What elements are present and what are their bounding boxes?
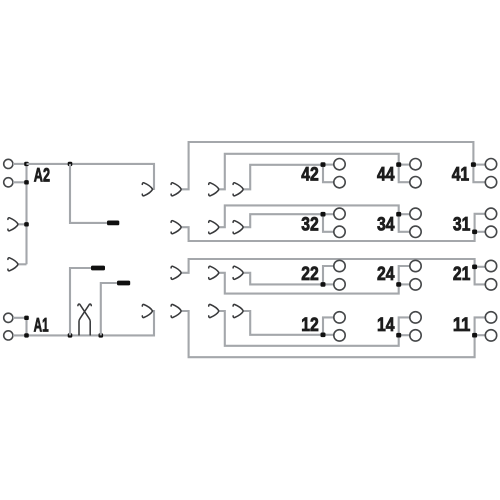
socket contact 1x NC (233, 304, 243, 317)
junction 14 (396, 333, 401, 338)
terminal 21 ring lower (485, 279, 496, 290)
wire 34 bracket (399, 214, 410, 232)
wire coil branch A (70, 268, 92, 335)
socket contact 3x NC (233, 221, 243, 234)
terminal 24 ring lower (410, 279, 421, 290)
wire 44 bracket (399, 165, 410, 183)
junction A1 lower (24, 333, 29, 337)
wire 44 stub (399, 164, 410, 166)
wire bus 21 (182, 259, 475, 273)
wire 32 stub (323, 213, 334, 215)
terminal 11 ring lower (485, 330, 496, 341)
wire bus 41 (182, 142, 474, 189)
terminal 32 ring upper (334, 208, 345, 219)
terminal 22 ring upper (334, 260, 345, 271)
wire A2 upper stub (13, 163, 27, 165)
wire 11 bracket (475, 317, 486, 335)
socket contact 3x common (171, 221, 181, 234)
wire bus 14 (219, 311, 398, 346)
svg-text:21: 21 (453, 264, 471, 285)
junction 44 (396, 162, 401, 167)
svg-text:A2: A2 (34, 166, 50, 187)
terminal A2 ring upper (4, 159, 13, 168)
junction A2 lower (24, 180, 29, 184)
wire coil branch B (101, 283, 118, 335)
svg-text:22: 22 (301, 264, 319, 285)
wire 41 stub (473, 164, 485, 166)
socket contact 3x NO (209, 221, 219, 234)
junction 21 (472, 265, 477, 270)
wire A2 feed (27, 164, 155, 189)
wire 42 bracket (323, 165, 334, 183)
junction coil branch C (68, 162, 73, 166)
terminal 24 ring upper (410, 260, 421, 271)
junction 32 (321, 212, 326, 217)
socket contact 1x NO (209, 304, 219, 317)
svg-text:42: 42 (301, 165, 319, 186)
terminal 41 ring lower (485, 177, 496, 188)
wire 22 stub (323, 283, 334, 285)
wire coil branch C (70, 164, 108, 223)
terminal A1 ring lower (4, 331, 13, 340)
wire 12 stub (323, 334, 334, 336)
svg-text:44: 44 (377, 165, 395, 186)
socket contact 2x NC (233, 266, 243, 279)
junction 41 (471, 162, 476, 167)
wire A1 main (13, 311, 154, 335)
svg-text:31: 31 (453, 214, 471, 235)
wire left upper contact stub (19, 223, 27, 225)
wire bus 42 (244, 165, 323, 190)
terminal 14 ring lower (410, 330, 421, 341)
terminal 34 ring upper (410, 208, 421, 219)
terminal 31 ring upper (485, 208, 496, 219)
terminal 32 ring lower (334, 226, 345, 237)
wire A2 left vertical (25, 164, 27, 264)
wire bus 12 (244, 311, 323, 335)
wire 11 stub (475, 334, 486, 336)
wire bus 34 (219, 205, 398, 227)
svg-text:41: 41 (452, 165, 470, 186)
junction 22 (321, 282, 326, 287)
socket contact left upper (8, 218, 18, 231)
terminal 11 ring upper (485, 312, 496, 323)
socket contact 4x NO (209, 183, 219, 196)
coil bar B (117, 281, 130, 286)
wire 12 bracket (323, 317, 334, 334)
wire 34 stub (399, 213, 410, 215)
wire 31 bracket (475, 214, 486, 232)
wire 32 bracket (323, 214, 334, 232)
wire 31 stub (475, 231, 486, 233)
socket contact 4x NC (233, 183, 243, 196)
junction 24 (396, 282, 401, 287)
junction coil branch B (99, 333, 104, 337)
terminal A1 ring upper (4, 313, 13, 322)
terminal 41 ring upper (485, 159, 496, 170)
terminal 44 ring upper (410, 159, 421, 170)
wire 14 bracket (399, 317, 410, 335)
wire bus 22 (244, 273, 323, 285)
terminal 44 ring lower (410, 177, 421, 188)
junction 42 (321, 162, 326, 167)
junction 11 (472, 333, 477, 338)
svg-text:11: 11 (453, 315, 471, 336)
terminal 31 ring lower (485, 226, 496, 237)
socket contact 1x common (171, 304, 181, 317)
socket contact 2x common (171, 266, 181, 279)
svg-text:34: 34 (377, 214, 395, 235)
socket contact coil A1 (142, 304, 152, 317)
terminal 21 ring upper (485, 260, 496, 271)
indicator cross stroke 1 (78, 304, 90, 335)
svg-text:24: 24 (377, 264, 395, 285)
junction left contact (24, 222, 29, 226)
terminal 42 ring upper (334, 159, 345, 170)
terminal 14 ring upper (410, 312, 421, 323)
terminal 22 ring lower (334, 279, 345, 290)
wire A1 left vertical (25, 318, 27, 336)
socket contact 2x NO (209, 266, 219, 279)
wire 42 stub (323, 164, 334, 166)
svg-text:12: 12 (301, 315, 319, 336)
socket contact 4x common (171, 183, 181, 196)
svg-text:32: 32 (301, 214, 319, 235)
wire A1 upper stub (13, 317, 27, 319)
wire left lower contact stub (19, 263, 27, 265)
wire bus 11 (182, 311, 475, 357)
terminal 12 ring lower (334, 330, 345, 341)
wire 24 bracket (399, 266, 410, 284)
terminal A2 ring lower (4, 178, 13, 187)
wire bus 32 (244, 214, 323, 227)
coil bar A (91, 266, 105, 271)
wire A2 lower stub (13, 181, 27, 183)
wire 21 stub (475, 266, 486, 268)
junction 12 (321, 333, 326, 338)
socket contact left lower (8, 258, 18, 271)
junction 34 (396, 212, 401, 217)
wire 24 stub (399, 283, 410, 285)
terminal 12 ring upper (334, 312, 345, 323)
socket contact coil A2 (142, 183, 152, 196)
indicator cross stroke 2 (79, 304, 91, 335)
wire 14 stub (399, 334, 410, 336)
junction A2 upper (24, 162, 29, 166)
wire 41 bracket (473, 165, 485, 183)
junction 31 (472, 230, 477, 235)
wire bus 24 (219, 273, 398, 294)
coil bar C (107, 221, 119, 226)
wire bus 44 (219, 154, 398, 190)
junction coil branch A (68, 333, 73, 337)
wire 21 bracket (475, 267, 486, 285)
svg-text:A1: A1 (34, 315, 49, 336)
terminal 34 ring lower (410, 226, 421, 237)
wire 22 bracket (323, 266, 334, 284)
svg-text:14: 14 (377, 315, 395, 336)
wire bus 31 (182, 227, 475, 241)
junction A1 upper (24, 316, 29, 320)
terminal 42 ring lower (334, 177, 345, 188)
